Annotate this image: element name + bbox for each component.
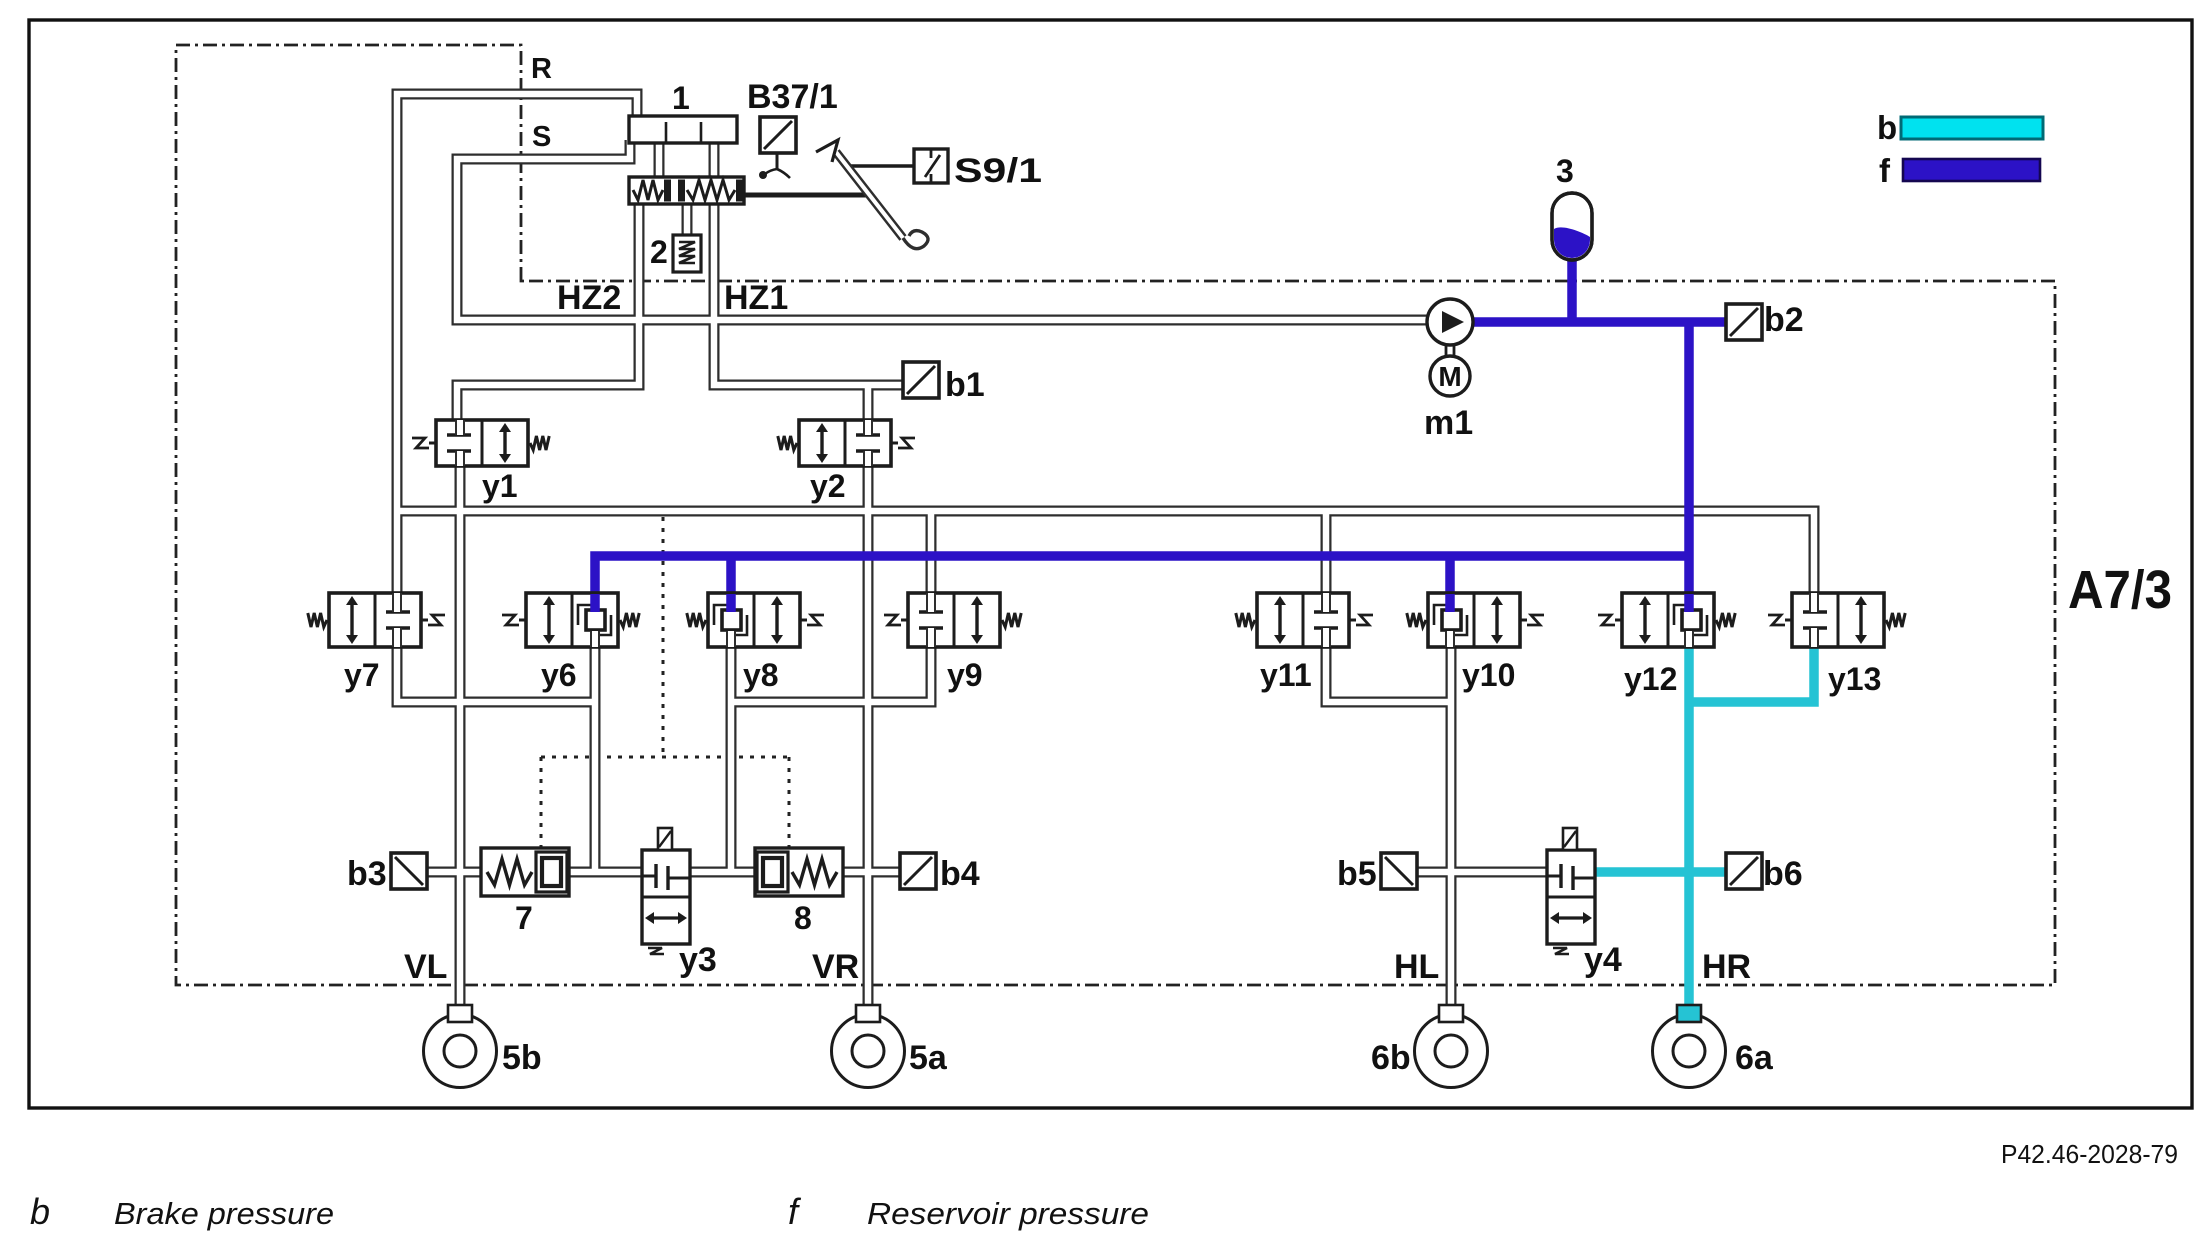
svg-text:y6: y6 — [541, 657, 577, 693]
svg-text:5b: 5b — [502, 1039, 542, 1077]
svg-text:y12: y12 — [1624, 661, 1677, 697]
svg-text:6b: 6b — [1371, 1039, 1411, 1077]
svg-text:y1: y1 — [482, 468, 518, 504]
svg-text:HZ1: HZ1 — [724, 279, 788, 317]
svg-text:6a: 6a — [1735, 1039, 1774, 1077]
svg-text:b3: b3 — [347, 855, 387, 893]
svg-text:A7/3: A7/3 — [2068, 560, 2172, 620]
svg-text:y13: y13 — [1828, 661, 1881, 697]
svg-text:S9/1: S9/1 — [954, 152, 1042, 190]
svg-text:R: R — [531, 53, 552, 85]
svg-text:b4: b4 — [940, 855, 980, 893]
svg-text:y7: y7 — [344, 657, 380, 693]
svg-text:Brake pressure: Brake pressure — [114, 1196, 334, 1231]
svg-text:P42.46-2028-79: P42.46-2028-79 — [2001, 1139, 2178, 1169]
svg-text:b5: b5 — [1337, 855, 1377, 893]
svg-text:1: 1 — [672, 80, 690, 116]
svg-text:y3: y3 — [679, 941, 717, 979]
svg-text:y9: y9 — [947, 657, 983, 693]
svg-text:3: 3 — [1556, 153, 1574, 189]
svg-text:HR: HR — [1702, 948, 1751, 986]
svg-text:b1: b1 — [945, 366, 985, 404]
svg-text:7: 7 — [515, 900, 533, 936]
svg-text:5a: 5a — [909, 1039, 948, 1077]
svg-text:f: f — [1879, 152, 1891, 189]
svg-text:y2: y2 — [810, 468, 846, 504]
svg-text:B37/1: B37/1 — [747, 78, 838, 116]
svg-text:y8: y8 — [743, 657, 779, 693]
svg-text:b6: b6 — [1763, 855, 1803, 893]
svg-text:HZ2: HZ2 — [557, 279, 621, 317]
svg-text:VR: VR — [812, 948, 859, 986]
svg-text:HL: HL — [1394, 948, 1439, 986]
svg-text:y4: y4 — [1584, 941, 1622, 979]
svg-text:8: 8 — [794, 900, 812, 936]
svg-text:y10: y10 — [1462, 657, 1515, 693]
svg-text:VL: VL — [404, 948, 447, 986]
svg-text:b: b — [30, 1191, 50, 1232]
svg-text:Reservoir pressure: Reservoir pressure — [867, 1196, 1149, 1231]
svg-text:2: 2 — [650, 234, 668, 270]
svg-text:m1: m1 — [1424, 404, 1473, 442]
svg-text:M: M — [1438, 361, 1461, 392]
svg-text:S: S — [532, 121, 551, 153]
svg-text:y11: y11 — [1260, 657, 1312, 693]
svg-text:b: b — [1877, 109, 1897, 146]
svg-text:b2: b2 — [1764, 301, 1804, 339]
